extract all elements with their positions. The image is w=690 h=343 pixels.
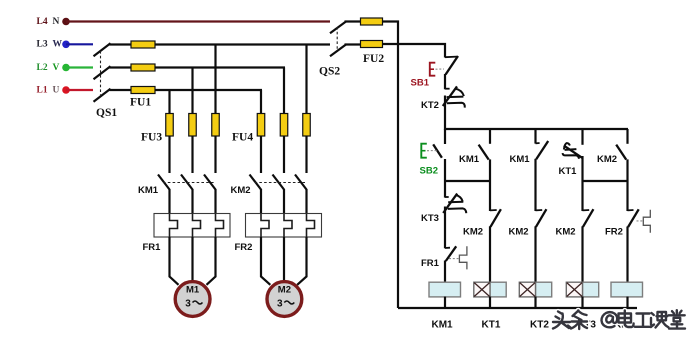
wire drop L2 to FU3b — [191, 68, 193, 116]
svg-text:W: W — [53, 40, 63, 50]
KM2 link dashed — [255, 182, 306, 184]
svg-text:SB2: SB2 — [420, 166, 438, 177]
wire neutral return: FU2a right, down left rail to bottom — [383, 22, 399, 309]
svg-text:KM1: KM1 — [459, 154, 480, 165]
wire KM2 NC to coil KT1 — [489, 226, 491, 282]
svg-text:FR2: FR2 — [235, 242, 253, 253]
pushbutton SB1 (NC stop) — [411, 56, 459, 89]
KM1 link dashed — [163, 182, 214, 184]
svg-text:V: V — [53, 63, 60, 73]
svg-text:KM2: KM2 — [556, 227, 576, 238]
coil KT3 (time relay with X box) — [566, 282, 598, 297]
wire b4 down through junction to KM2 NC — [581, 156, 583, 211]
wire control top rail — [445, 128, 628, 130]
fuse FU1 pole c — [131, 87, 155, 94]
svg-text:KM2: KM2 — [231, 185, 251, 196]
coil KT2 (time relay with X box) — [519, 282, 551, 297]
wire control phase: FU2b to SB1 column — [383, 44, 446, 58]
wire L2 QS1 to FU1 — [110, 66, 133, 68]
svg-text:FU4: FU4 — [232, 132, 253, 144]
svg-text:KM1: KM1 — [138, 185, 159, 196]
wire L2 rail — [155, 66, 285, 68]
wire coil KT1 to bottom rail — [489, 297, 491, 308]
fuse FU3 pole a — [166, 114, 174, 137]
wire FU4b to KM2 — [283, 136, 285, 173]
svg-text:L2: L2 — [37, 63, 48, 73]
node L4 N terminal — [37, 17, 70, 27]
svg-text:FU2: FU2 — [363, 53, 384, 65]
svg-text:FR2: FR2 — [605, 227, 623, 238]
wire L3 to QS1 — [66, 43, 93, 45]
svg-text:M2: M2 — [278, 285, 291, 296]
svg-text:KT2: KT2 — [421, 100, 439, 111]
svg-text:KM1: KM1 — [432, 320, 454, 331]
wire rail to KM1 aux b3 — [534, 129, 536, 144]
coil KM1 — [429, 282, 461, 297]
wire coil KM1 to bottom rail — [444, 297, 446, 308]
svg-text:KM2: KM2 — [597, 154, 617, 165]
pushbutton SB2 (NO start) — [420, 144, 442, 177]
wire drop L1 to FU3a — [168, 90, 170, 115]
wire bottom rail — [398, 307, 637, 309]
wire FU4c to KM2 — [305, 136, 307, 173]
QS2 link dashed line — [336, 27, 338, 50]
svg-text:KM2: KM2 — [509, 227, 529, 238]
watermark 头条@电工课堂 — [553, 310, 685, 329]
fuse FU4 pole b — [280, 114, 288, 137]
wire coil KT3 to bottom rail — [581, 297, 583, 308]
fuse FU2 pole a — [361, 18, 383, 25]
wires FR2 to motor M2 — [261, 237, 307, 285]
svg-text:L3: L3 — [37, 40, 48, 50]
contact KM1 aux NO b3 (mirrored) — [510, 141, 549, 165]
FR1 heater elements — [170, 214, 224, 238]
contactor KM1 main contacts — [158, 175, 216, 190]
wire junction b1-b2 — [445, 180, 490, 182]
wire rail corner to KM2 aux b5 — [626, 129, 628, 144]
wire L1 QS1 to FU1 — [110, 89, 133, 91]
fuse FU4 pole c — [303, 114, 311, 137]
svg-text:L4: L4 — [37, 17, 48, 27]
wire b5 down through junction to FR2 NC — [626, 159, 628, 211]
time contact KT3 (NO delayed) — [421, 194, 466, 224]
fuse FU2 pole b — [361, 41, 383, 48]
wire junction b4-b5 — [583, 180, 628, 182]
wire drop L3 to FU3c — [214, 45, 216, 116]
wire drop L2 to FU4b — [283, 68, 285, 116]
thermal relay FR1 box — [154, 214, 230, 238]
wires FR1 to motor M1 — [170, 237, 216, 285]
wire QS2a to FU2a — [345, 20, 362, 22]
wire FU3c to KM1 — [214, 136, 216, 173]
contact KM2 NC b3 — [509, 209, 547, 237]
motor M1 — [175, 282, 210, 317]
wire L1 rail — [155, 89, 262, 91]
wires KM1 to FR1 — [170, 189, 216, 214]
svg-text:KT1: KT1 — [559, 166, 578, 177]
svg-text:KT1: KT1 — [482, 320, 501, 331]
switch QS2 two-pole knife switch — [330, 22, 346, 57]
svg-text:QS1: QS1 — [96, 107, 117, 119]
QS1 link dashed line — [100, 51, 102, 96]
wire drop L1 to FU4a — [260, 90, 262, 115]
wire SB2 down through junction to KT3 — [444, 159, 446, 198]
svg-text:3: 3 — [277, 299, 283, 310]
wire rail to KM1 aux b2 — [489, 129, 491, 144]
wire coil KM2 to bottom rail — [626, 297, 628, 308]
node L3 W terminal — [37, 40, 70, 50]
coil KT1 (time relay with X box) — [474, 282, 506, 297]
contactor KM2 main contacts — [250, 175, 307, 190]
node L2 V terminal — [37, 63, 70, 73]
svg-text:U: U — [53, 85, 60, 95]
wire L3 QS1 to FU1 — [110, 43, 133, 45]
svg-text:KM2: KM2 — [463, 227, 483, 238]
coil KM2 — [611, 282, 643, 297]
wire rail to KT1 contact b4 — [581, 129, 583, 145]
wire b3 down to KM2 NC — [534, 159, 536, 211]
fuse FU1 pole a — [131, 41, 155, 48]
wire rail to SB2 — [444, 129, 446, 144]
svg-text:FU1: FU1 — [130, 97, 151, 109]
wire KM2 NC to coil KT2 — [534, 226, 536, 282]
wire FU3b to KM1 — [191, 136, 193, 173]
wire FR2 to coil KM2 — [626, 227, 628, 283]
fuse FU1 pole b — [131, 64, 155, 71]
contact KM1 aux NO (self hold) — [459, 145, 489, 165]
svg-text:KM1: KM1 — [510, 154, 531, 165]
svg-text:FR1: FR1 — [421, 258, 440, 269]
svg-text:L1: L1 — [37, 85, 48, 95]
svg-text:FR1: FR1 — [143, 242, 162, 253]
wire coil KT2 to bottom rail — [534, 297, 536, 308]
svg-text:KT3: KT3 — [421, 213, 439, 224]
wires KM2 to FR2 — [261, 189, 307, 214]
wire KT3 to FR1 contact — [444, 207, 446, 249]
wire L1 to QS1 — [66, 89, 93, 91]
svg-text:FU3: FU3 — [141, 132, 162, 144]
fuse FU3 pole c — [212, 114, 220, 137]
FR2 heater elements — [261, 214, 315, 238]
svg-text:N: N — [53, 17, 60, 27]
svg-text:3: 3 — [185, 299, 191, 310]
thermal relay FR2 box — [246, 214, 322, 238]
wire L4 neutral rail to QS2 — [66, 20, 330, 22]
wire L2 to QS1 — [66, 66, 93, 68]
contact KM2 aux NO b5 — [597, 145, 626, 165]
motor M2 — [267, 282, 302, 317]
svg-text:QS2: QS2 — [319, 66, 340, 78]
wire drop L3 to FU4c — [305, 45, 307, 116]
wire QS2b to FU2b — [345, 43, 362, 45]
fuse FU3 pole b — [189, 114, 197, 137]
wire L3 rail — [155, 43, 330, 45]
contact KM2 NC b4 — [556, 209, 594, 237]
fuse FU4 pole a — [257, 114, 265, 137]
time contact KT2 (NC delayed) — [421, 86, 465, 111]
FR2 NC contact (control) — [605, 209, 650, 237]
svg-text:SB1: SB1 — [411, 78, 430, 89]
wire b2 down to KM2 NC — [489, 159, 491, 211]
svg-text:KT2: KT2 — [530, 320, 549, 331]
wire FR1 to coil KM1 — [444, 261, 446, 283]
svg-text:M1: M1 — [186, 285, 200, 296]
node L1 U terminal — [37, 85, 70, 95]
FR1 NC contact (control) — [421, 246, 467, 269]
wire KT2 to rail — [444, 96, 446, 131]
contact KM2 NC interlock b2 — [463, 209, 501, 237]
wire FU4a to KM2 — [260, 136, 262, 173]
time contact KT1 (delayed) — [559, 143, 583, 177]
wire SB1 to KT2 — [444, 74, 446, 89]
wire KM2 NC to coil KT3 — [581, 226, 583, 282]
wire FU3a to KM1 — [168, 136, 170, 173]
switch QS1 three-pole knife switch — [94, 43, 111, 101]
